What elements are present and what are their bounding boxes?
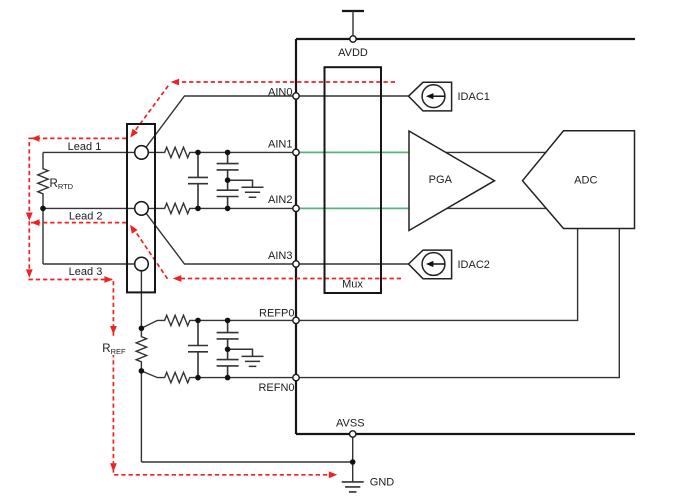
junction dot REFN0 b bbox=[225, 375, 231, 381]
svg-text:AVDD: AVDD bbox=[338, 47, 368, 59]
svg-text:AIN0: AIN0 bbox=[268, 86, 292, 98]
svg-text:PGA: PGA bbox=[429, 174, 453, 186]
connector pin 3 circle bbox=[135, 257, 149, 271]
chip boundary AVDD rail bbox=[296, 38, 635, 40]
wire Lead 3 bbox=[43, 263, 135, 265]
chip boundary AVSS rail bbox=[296, 433, 635, 435]
wire AIN1 green channel bbox=[300, 151, 410, 153]
pin AVDD circle bbox=[350, 36, 356, 42]
red dashed return path branch lead2 bbox=[31, 222, 127, 224]
PGA U1 triangle bbox=[409, 131, 495, 231]
red dashed return path lead1 to left rail bbox=[29, 138, 329, 474]
resistor filter R2 (AIN2) bbox=[148, 203, 296, 213]
svg-text:RRTD: RRTD bbox=[50, 178, 74, 191]
svg-text:IDAC2: IDAC2 bbox=[458, 259, 490, 271]
resistor filter R3 (REFP0) bbox=[141, 315, 296, 328]
current source IDAC1 symbol bbox=[409, 82, 452, 111]
wire REFP0 trace to ADC bbox=[300, 229, 578, 321]
junction dot REFP0 a bbox=[195, 318, 201, 324]
wire AIN3 from connector pin 2 to IDAC2 bbox=[146, 213, 409, 264]
junction dot AIN1 filter a bbox=[195, 150, 201, 156]
connector pin 1 circle bbox=[135, 146, 149, 160]
pin REFP0 circle bbox=[293, 317, 299, 323]
junction dot AIN1 filter b bbox=[225, 150, 231, 156]
red arrowhead return lead1 left bbox=[31, 135, 40, 142]
junction dot GND node bbox=[350, 459, 356, 465]
junction dot REF cm mid bbox=[225, 347, 231, 353]
ground symbol at AIN filter bbox=[228, 180, 264, 197]
pin AIN3 circle bbox=[293, 261, 299, 267]
red arrowhead return down 1 bbox=[26, 213, 33, 222]
pin AVSS circle bbox=[350, 431, 356, 437]
red arrowhead return down 4 bbox=[110, 463, 117, 472]
wire PGA output top to ADC bbox=[440, 151, 550, 153]
red arrowhead IDAC1 path left bbox=[171, 79, 180, 86]
red dashed IDAC1 current path horizontal bbox=[177, 81, 396, 83]
wire REFN0 trace to ADC bbox=[300, 229, 620, 378]
svg-text:AIN3: AIN3 bbox=[268, 250, 292, 262]
svg-text:ADC: ADC bbox=[574, 175, 597, 187]
svg-text:GND: GND bbox=[370, 476, 395, 488]
red dashed IDAC2 current path horizontal bbox=[179, 278, 402, 280]
wire AVSS circle to ground bbox=[352, 437, 354, 482]
svg-text:IDAC1: IDAC1 bbox=[458, 91, 490, 103]
red dashed IDAC2 current path diagonal into pin 2 bbox=[133, 228, 167, 279]
junction dot AIN cm mid bbox=[225, 177, 231, 183]
pin AIN0 circle bbox=[293, 93, 299, 99]
pin AIN1 circle bbox=[293, 149, 299, 155]
pin REFN0 circle bbox=[293, 374, 299, 380]
red arrowhead IDAC1 path into connector bbox=[130, 129, 138, 138]
connector block bbox=[127, 124, 155, 292]
resistor R_REF bbox=[136, 271, 146, 462]
junction dot AIN2 filter b bbox=[225, 206, 231, 212]
capacitor C5 common-mode top (REFP0) bbox=[217, 320, 239, 349]
ground symbol GND bbox=[342, 482, 364, 492]
svg-text:Lead 1: Lead 1 bbox=[68, 141, 102, 153]
capacitor C1 differential (AIN) bbox=[188, 152, 208, 208]
red arrowhead return right to GND bbox=[329, 471, 338, 478]
junction dot REFN0 a bbox=[195, 375, 201, 381]
red arrowhead IDAC2 path into connector bbox=[130, 225, 138, 234]
current source IDAC2 symbol bbox=[409, 250, 452, 279]
red arrowhead return right along lead3 bbox=[104, 276, 113, 283]
wire PGA output bottom to ADC bbox=[439, 207, 551, 209]
Mux block bbox=[325, 67, 382, 293]
ADC U2 pentagon bbox=[523, 131, 635, 229]
wire AIN0 from connector pin 1 to IDAC1 bbox=[146, 96, 409, 148]
resistor R_RTD bbox=[38, 152, 48, 264]
AVDD supply symbol bbox=[342, 10, 364, 12]
label R_REF bbox=[99, 338, 127, 356]
junction dot R_REF top bbox=[139, 326, 145, 332]
capacitor C4 differential (REF) bbox=[188, 320, 208, 377]
red arrowhead IDAC2 path left bbox=[173, 275, 182, 282]
junction dot R_REF bottom bbox=[139, 368, 145, 374]
red arrowhead return lead2 left bbox=[31, 219, 40, 226]
pin AIN2 circle bbox=[293, 205, 299, 211]
svg-text:Lead 2: Lead 2 bbox=[69, 210, 103, 222]
wire AIN2 green channel bbox=[300, 207, 410, 209]
connector pin 2 circle bbox=[135, 202, 149, 216]
red arrowhead return down 3 bbox=[110, 326, 117, 335]
chip boundary left edge bbox=[295, 39, 297, 434]
svg-text:REFP0: REFP0 bbox=[259, 308, 294, 320]
junction dot lead2 bbox=[40, 206, 46, 212]
svg-text:Mux: Mux bbox=[342, 279, 363, 291]
resistor filter R1 (AIN1) bbox=[148, 147, 296, 157]
ground symbol at REF filter bbox=[228, 349, 264, 366]
red dashed IDAC1 current path diagonal into pin 1 bbox=[133, 86, 168, 134]
junction dot AIN2 filter a bbox=[195, 206, 201, 212]
red arrowhead return down 2 bbox=[26, 269, 33, 278]
wire ground return to GND node bbox=[141, 461, 352, 463]
capacitor C2 common-mode top (AIN1) bbox=[217, 152, 239, 180]
svg-text:AVSS: AVSS bbox=[336, 418, 365, 430]
svg-text:AIN2: AIN2 bbox=[268, 194, 292, 206]
capacitor C3 common-mode bottom (AIN2) bbox=[217, 180, 239, 208]
svg-text:AIN1: AIN1 bbox=[268, 138, 292, 150]
wire Lead 1 bbox=[43, 151, 135, 153]
resistor filter R4 (REFN0) bbox=[141, 371, 296, 383]
svg-text:REFN0: REFN0 bbox=[258, 382, 294, 394]
svg-text:Lead 3: Lead 3 bbox=[69, 266, 103, 278]
capacitor C6 common-mode bottom (REFN0) bbox=[217, 349, 239, 377]
wire Lead 2 bbox=[43, 207, 135, 209]
junction dot REFP0 b bbox=[225, 318, 231, 324]
